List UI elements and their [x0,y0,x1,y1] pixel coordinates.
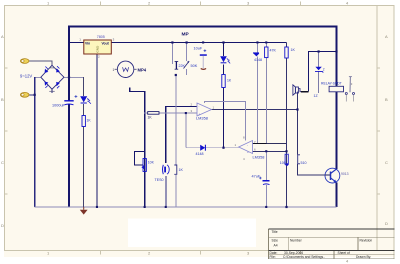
svg-text:4148: 4148 [196,152,204,156]
svg-text:C:\Documents and Settings..: C:\Documents and Settings.. [283,255,325,259]
svg-text:2: 2 [323,68,325,72]
svg-text:A4: A4 [274,243,278,247]
svg-text:RELAY-SPDT: RELAY-SPDT [321,81,342,85]
svg-text:10uF: 10uF [194,46,203,50]
svg-text:LM358: LM358 [253,154,265,159]
svg-text:A: A [1,34,4,39]
svg-text:10K: 10K [148,161,155,165]
wire speaker to subloop (black) [301,91,309,93]
svg-text:MP: MP [182,32,190,38]
svg-text:9~12V: 9~12V [20,74,32,79]
svg-text:1K: 1K [227,78,232,82]
wire 4148 pull column [257,43,259,144]
diode D3 4148 (reference clamp) [253,52,262,62]
svg-text:1K: 1K [179,168,184,172]
svg-text:1K: 1K [148,116,153,120]
svg-text:D: D [385,221,388,226]
svg-text:Revision: Revision [360,238,373,242]
wire connector2 to AC2 vertical [29,94,35,96]
resistor R1 (LED ballast) [82,116,91,127]
capacitor C1 1000uF [52,95,77,107]
wire 47K column [265,43,267,144]
motor MP4 [113,61,147,77]
wire opamp1 V+ to opamp2 V+ [205,102,246,141]
svg-text:1000uF: 1000uF [52,103,66,107]
wire 47uF column [265,151,267,207]
rheostat R6 10K [141,159,154,172]
wire LED/R column [83,77,85,207]
sensor TES0 (piezo) [155,165,170,182]
svg-text:510: 510 [301,161,307,165]
wire left DC+ vertical [68,26,70,207]
wire bridge bottom stub [51,89,53,93]
white patch [128,219,256,248]
regulator U1 7805 [79,35,114,59]
wire opamp2 bottom input [253,150,287,152]
svg-text:100: 100 [280,161,286,165]
svg-text:Sheet of: Sheet of [338,251,350,255]
wire opamp1 noninverting input line [144,112,148,114]
wire LED2 column [223,43,225,148]
resistor R8 100 [280,154,289,166]
svg-text:Vout: Vout [102,41,110,45]
resistor R7 1K (bracket) [174,165,177,174]
wire sensor column / opamp1 inverting input [166,107,197,164]
resistor R2 1K [222,75,232,88]
svg-text:50K: 50K [191,64,198,68]
resistor R4 1K (divider top) [285,47,296,58]
LED D1 [80,96,91,104]
transistor Q1 9013 [325,168,349,183]
capacitor C2 10uF [194,46,207,69]
svg-text:4148: 4148 [254,58,262,62]
resistor R3 47K [265,47,277,58]
svg-text:C: C [1,160,4,165]
capacitor C3 47uF [252,175,270,185]
svg-text:Title: Title [272,230,278,234]
svg-text:2: 2 [87,99,89,103]
wire raw subloop top [309,52,337,92]
wire 7805 Vin pin [69,42,84,44]
svg-text:9013: 9013 [341,172,349,176]
wire diode feedback horizontal [186,147,239,149]
wire thick signal path from stub to rheostat [130,88,145,152]
wire rheostat bypass bracket [135,152,145,165]
wire +5V rail [111,42,287,44]
speaker LS1 [293,85,301,95]
bridge pin ticks [49,68,54,91]
svg-text:2: 2 [228,59,230,63]
wire AC2/bottom-left vertical [34,77,36,207]
bridge rectifier BR1 [41,65,64,89]
svg-text:MP4: MP4 [138,67,147,72]
svg-text:B: B [1,97,4,102]
wire pot tap column down [175,75,177,165]
wire bridge right vertex to DC+ and LED column [64,76,84,78]
wire zener column [318,52,320,94]
svg-text:1K: 1K [87,118,92,122]
svg-text:Drawn By:: Drawn By: [356,255,371,259]
svg-text:7805: 7805 [97,35,105,39]
svg-text:Vin: Vin [85,41,90,45]
svg-text:C: C [385,160,388,165]
wire rheostat bottom to ground rail [144,152,146,207]
svg-text:1K: 1K [291,48,296,52]
resistor R9 510 (bracket) [298,155,300,164]
wire feedback vertical from +input [185,113,187,148]
op-amp U2A LM358 [191,102,215,120]
svg-text:B: B [385,97,388,102]
svg-text:TES0: TES0 [155,178,164,182]
wire output down to 510 and transistor base [298,94,326,176]
svg-text:Number: Number [290,238,303,242]
title block [269,229,395,259]
svg-text:GND: GND [95,45,99,53]
wire pot left leg [171,43,173,65]
connector P1 pin2 [20,92,29,97]
wire pot right leg [186,43,188,62]
connector P1 pin1 [20,59,29,64]
wire 1K divider column [286,43,288,208]
ground symbol (brown) [80,207,88,215]
svg-text:47K: 47K [270,48,277,52]
wire bridge left vertex [35,76,41,78]
svg-text:LM358: LM358 [196,116,208,121]
wire top raw DC rail [69,26,337,28]
op-amp U2B LM358 (pointing left) [235,135,265,160]
svg-text:D: D [1,223,4,228]
wire opamp2 top input (black) [253,143,267,145]
svg-text:File:: File: [270,255,276,259]
wire 7805 GND column [96,54,98,207]
LED D2 [220,56,230,63]
svg-text:Size: Size [272,238,279,242]
diode D4 4148 (feedback) [196,145,206,157]
zener D5 [314,67,325,98]
svg-text:1: 1 [113,68,115,72]
resistor R5 (input, horizontal) [148,112,160,120]
wire opamp1 output [212,109,298,111]
svg-text:A: A [385,34,388,39]
trimpot RP1 50K [175,61,198,69]
wire right main vertical (raw rail down) [336,26,338,207]
relay K1 [321,77,355,102]
wire connector1 to bridge top [29,61,53,65]
wire bottom ground rail [35,206,337,208]
